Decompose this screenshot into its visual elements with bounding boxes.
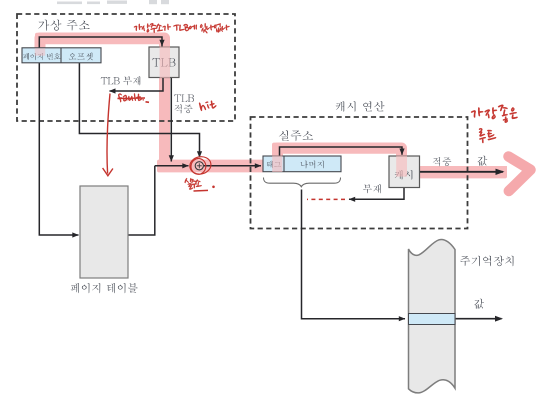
pink marker overlay on tag cell xyxy=(272,156,282,172)
label: 적중(cache) xyxy=(433,157,451,166)
label: 캐시 연산 xyxy=(336,101,385,112)
label: 페이지 번호 xyxy=(23,53,61,60)
concatenate junction circle-plus xyxy=(195,162,203,170)
label: 실주소 xyxy=(279,130,313,141)
wire: real address feed into junction xyxy=(155,163,189,168)
pink marker extra width on horizontal runs xyxy=(35,33,507,179)
pink marker overlay on page-number cell top xyxy=(35,48,45,56)
box: cache 캐시 xyxy=(389,156,420,188)
faint cropped text remnant at top xyxy=(57,0,169,4)
label: TLB(적중) xyxy=(174,95,194,102)
brace under tag/remainder xyxy=(264,178,341,187)
wire: cache hit output to value xyxy=(420,169,505,175)
red note: hit xyxy=(199,99,217,111)
red dashed line: cache miss back to memory path xyxy=(307,198,345,200)
box: virtual address fields 페이지 번호 / 오프셋 xyxy=(22,48,101,63)
dashed box: virtual address (가상 주소) xyxy=(17,14,235,121)
red note: 루트 xyxy=(479,128,496,143)
pink marker highlight: virtual address to TLB to real address path xyxy=(40,38,507,172)
label: 부재(cache) xyxy=(363,184,381,193)
wire: TLB miss down-left xyxy=(109,78,163,94)
wire: TLB hit down to real address line xyxy=(169,78,174,162)
wire: page-number down to page table xyxy=(39,63,79,238)
label: TLB xyxy=(152,58,175,66)
red strike through fault xyxy=(118,97,146,100)
wire: offset down and right to junction xyxy=(79,63,202,158)
red dot after 실주소 xyxy=(194,189,209,192)
red note: 가장좋은 xyxy=(471,105,518,123)
label: 적중(TLB) xyxy=(174,104,192,113)
pink marker overlay on cache box xyxy=(396,156,407,177)
main memory 주기억장치 shape xyxy=(409,239,456,392)
dashed box: cache operation (캐시 연산) xyxy=(251,117,468,229)
wire: junction to tag box xyxy=(204,163,261,168)
wire: cache miss down-left xyxy=(349,188,404,202)
label: TLB 부재 xyxy=(101,76,141,85)
label: 값(top) xyxy=(478,156,488,166)
box: TLB xyxy=(149,47,179,78)
wire: page table out right and up xyxy=(128,166,155,235)
pink marker overlay on TLB box xyxy=(160,47,170,79)
red note: 가상주소가 TLB에 있나없나 xyxy=(134,23,230,33)
label: 가상 주소 xyxy=(38,20,89,31)
box: real address tag/remainder 태그/나머지 xyxy=(263,156,341,172)
wire: real address over to cache xyxy=(280,147,405,156)
memory blue word band xyxy=(409,314,456,325)
label: 오프셋 xyxy=(69,53,93,61)
label: 주기억장치 xyxy=(460,256,513,267)
wire: page-number to TLB (top path) xyxy=(39,37,164,48)
wire: remainder brace down to memory xyxy=(302,190,406,322)
wire: memory out to value xyxy=(455,316,503,322)
red hand-drawn circles around junction xyxy=(188,155,212,176)
pink chevron arrow best-route xyxy=(509,157,531,192)
label: 페이지 테이블 xyxy=(71,283,138,293)
red note: fault xyxy=(117,92,144,102)
red note: 실주소 (junction) xyxy=(185,178,202,190)
label: 값(memory) xyxy=(474,299,484,309)
box: page table 페이지 테이블 xyxy=(80,186,128,278)
label: 나머지 xyxy=(301,161,324,169)
label: 캐시 xyxy=(395,170,413,180)
red pen line: fault path down to page table xyxy=(103,94,113,176)
label: 태그 xyxy=(267,161,281,168)
